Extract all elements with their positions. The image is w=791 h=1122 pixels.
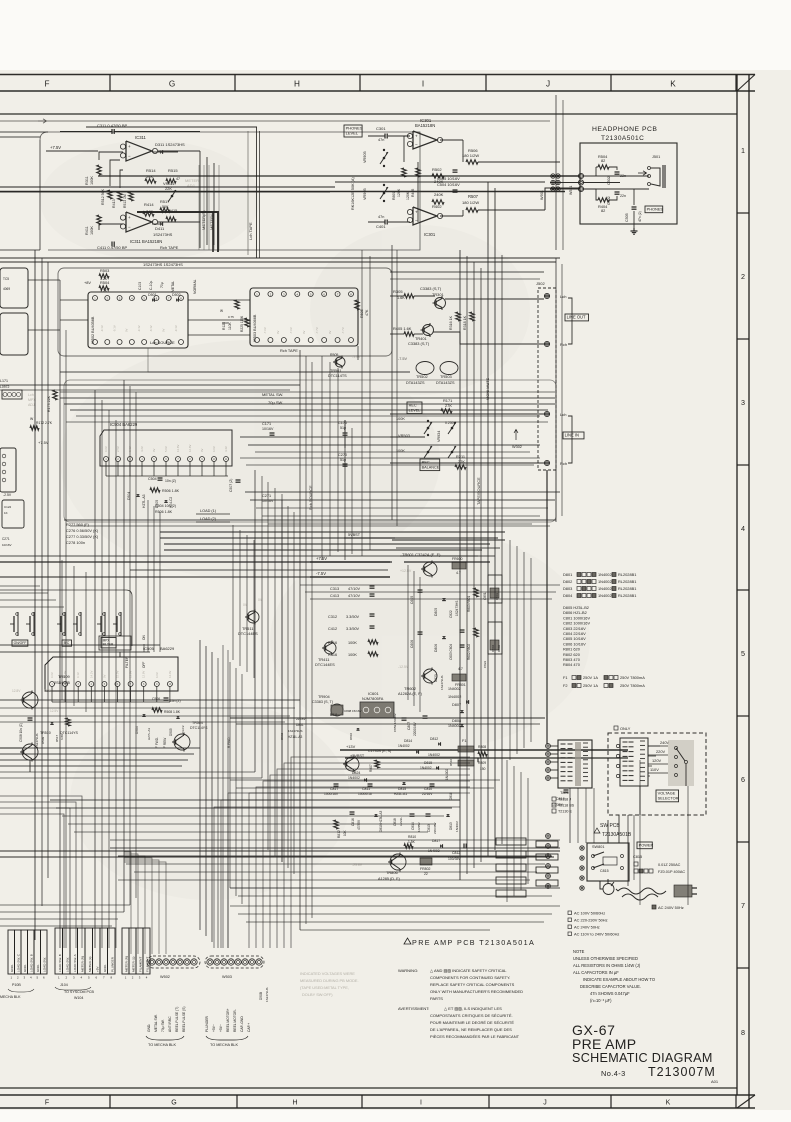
svg-text:47n: 47n: [378, 215, 384, 219]
svg-text:1.5K: 1.5K: [408, 840, 416, 844]
pot lower pair: [427, 451, 429, 453]
box meter-amp section outline: [40, 132, 420, 250]
svg-text:5: 5: [741, 649, 745, 658]
svg-text:METER (L): METER (L): [131, 957, 135, 972]
svg-text:R801: R801: [392, 191, 396, 200]
wire corner elbows bottom-left: [0, 796, 82, 948]
wires line in: [390, 413, 544, 415]
svg-text:22n: 22n: [620, 194, 626, 198]
wire top bus with arrow: [0, 120, 550, 122]
svg-text:DE L'APPAREIL, NE REMPLACER QU: DE L'APPAREIL, NE REMPLACER QUE DES: [430, 1027, 512, 1032]
svg-text:PIÈCES RECOMMANDÉES PAR LE FAB: PIÈCES RECOMMANDÉES PAR LE FABRICANT: [430, 1034, 520, 1039]
svg-text:GND.: GND.: [23, 964, 27, 972]
svg-text:C818: C818: [393, 818, 397, 826]
svg-text:R502: R502: [432, 167, 442, 172]
wire meter loop thick: [137, 212, 218, 252]
svg-text:R503: R503: [100, 268, 109, 273]
svg-text:J: J: [546, 80, 550, 89]
svg-text:220/35V: 220/35V: [433, 822, 437, 834]
svg-text:1N4002: 1N4002: [348, 776, 360, 780]
transistor TR806: [390, 854, 406, 870]
svg-text:+5V~: +5V~: [219, 1024, 223, 1032]
svg-text:LOAD SW.: LOAD SW.: [65, 957, 69, 972]
svg-text:R809: R809: [478, 761, 486, 765]
wire stub rows left mid: [0, 585, 40, 587]
transistor TR401: [423, 325, 434, 336]
connector extra header: [122, 928, 129, 974]
svg-text:220V: 220V: [656, 749, 665, 754]
transistor TR503: [440, 362, 458, 375]
svg-text:ANTI RRC: ANTI RRC: [168, 1016, 172, 1032]
connector W503: [207, 959, 213, 965]
shaded connector C851: [488, 575, 502, 603]
svg-text:1N4002: 1N4002: [428, 753, 440, 757]
connector circles mid column: [546, 834, 551, 839]
svg-text:P10B: P10B: [12, 983, 21, 987]
wire +7.5V: [46, 150, 98, 152]
svg-text:RL2028B1: RL2028B1: [618, 593, 636, 598]
svg-text:C814: C814: [411, 822, 415, 830]
svg-text:1N4002: 1N4002: [445, 769, 449, 780]
svg-text:−: −: [415, 142, 418, 147]
svg-text:DOLBY SW:OFF): DOLBY SW:OFF): [302, 992, 333, 997]
svg-text:OFF: OFF: [142, 662, 146, 668]
wire heavy bus y191: [0, 191, 565, 193]
svg-text:METER (R): METER (R): [124, 956, 128, 972]
left small box 2: [0, 313, 28, 355]
svg-text:C122: C122: [4, 505, 12, 509]
connector column T801: [546, 744, 551, 749]
fet switch q1: [17, 612, 19, 636]
svg-text:(TAPE USED:METAL TYPE,: (TAPE USED:METAL TYPE,: [300, 985, 349, 990]
box around fet section: [0, 590, 132, 646]
transistor TR502: [416, 362, 434, 375]
svg-text:Rch: Rch: [560, 461, 567, 466]
svg-text:H: H: [292, 1100, 297, 1107]
svg-text:POWER: POWER: [639, 842, 654, 847]
svg-text:10/35V: 10/35V: [417, 821, 421, 832]
svg-text:1: 1: [741, 146, 745, 155]
svg-text:DESCRIBE CAPACITOR VALUE.: DESCRIBE CAPACITOR VALUE.: [580, 984, 641, 989]
svg-text:C278 100n: C278 100n: [66, 540, 85, 545]
svg-text:C502: C502: [607, 176, 611, 185]
svg-text:METAL: METAL: [171, 281, 175, 292]
resistor R404 82: [598, 198, 609, 202]
svg-text:Rch: Rch: [560, 342, 567, 347]
svg-text:VR905: VR905: [363, 151, 367, 163]
wire w502 feeds: [124, 852, 131, 954]
svg-text:R225 110K: R225 110K: [240, 315, 244, 332]
svg-text:PLUNGER: PLUNGER: [110, 956, 114, 972]
wire selector down: [639, 786, 641, 815]
drawing top border: [0, 113, 737, 115]
bottom grid band: [0, 1094, 755, 1096]
svg-text:W503: W503: [222, 975, 232, 979]
svg-text:250V T800mA: 250V T800mA: [620, 683, 645, 688]
connector Rch line in: [544, 460, 549, 465]
svg-text:Lch: Lch: [28, 393, 34, 397]
svg-text:TO MECHA BLK: TO MECHA BLK: [148, 1043, 176, 1047]
wire mid trunk verticals 2: [232, 525, 234, 660]
wire lch tape vertical: [247, 131, 249, 255]
svg-text:SELECTOR: SELECTOR: [658, 795, 679, 800]
svg-text:RL2028B1: RL2028B1: [618, 586, 636, 591]
svg-text:LOAD SW.: LOAD SW.: [43, 957, 47, 972]
connector J104: [55, 928, 63, 974]
brace to mecha blk right: [206, 1036, 248, 1040]
svg-text:A1285 (D, E): A1285 (D, E): [378, 877, 401, 881]
svg-text:13.8V: 13.8V: [129, 671, 133, 678]
wire 13V bus: [340, 749, 628, 751]
svg-text:METER (L): METER (L): [88, 957, 92, 972]
fusible FR802: [420, 858, 432, 865]
svg-text:1N4002: 1N4002: [598, 579, 612, 584]
svg-text:C-10µ: C-10µ: [149, 281, 153, 290]
svg-text:△ ET ▨▨, ILS INDIQUENT LES: △ ET ▨▨, ILS INDIQUENT LES: [444, 1006, 502, 1011]
sw pcb connect circles: [580, 846, 584, 850]
svg-text:-7.6V: -7.6V: [289, 327, 293, 334]
svg-text:J104: J104: [60, 983, 68, 987]
svg-text:TAPE/SOURCE: TAPE/SOURCE: [476, 477, 481, 505]
svg-text:+13V: +13V: [346, 744, 356, 749]
fusible resistor FR600: [452, 562, 466, 569]
svg-text:C277 0.33/50V (K): C277 0.33/50V (K): [66, 534, 99, 539]
svg-text:ON/OFF: ON/OFF: [14, 641, 27, 645]
svg-text:C812: C812: [452, 851, 460, 855]
connector W501: [578, 173, 583, 178]
svg-text:14.2V: 14.2V: [89, 671, 93, 678]
svg-text:+: +: [415, 133, 418, 138]
svg-text:C505 10/16V: C505 10/16V: [437, 176, 460, 181]
svg-text:FILAMENT: FILAMENT: [138, 957, 142, 972]
box PHONES label: [645, 206, 663, 213]
svg-text:4: 4: [741, 524, 745, 533]
svg-text:RL2028B1: RL2028B1: [618, 572, 636, 577]
wire lch tape pair: [256, 127, 258, 258]
svg-text:Lch SOURCE: Lch SOURCE: [150, 340, 175, 345]
left ic box 3: [0, 448, 16, 492]
svg-text:47n (2): 47n (2): [638, 211, 642, 222]
top grid band: [0, 74, 755, 76]
svg-text:AC 220-230V 50Hz: AC 220-230V 50Hz: [574, 918, 608, 923]
svg-text:D819 HZ5L-A3: D819 HZ5L-A3: [379, 811, 383, 832]
svg-text:1S2473HS 1S2473HS: 1S2473HS 1S2473HS: [143, 262, 183, 267]
wire long verticals: [34, 250, 36, 940]
transistor TR602: [423, 669, 437, 683]
wire transformer secondary: [550, 745, 558, 747]
transformer T851 selector: [620, 738, 648, 786]
svg-text:MEASURED DURING PB MODE.: MEASURED DURING PB MODE.: [300, 978, 359, 983]
svg-text:ALL CAPACITORS IN µF: ALL CAPACITORS IN µF: [573, 970, 619, 975]
svg-text:1N4002: 1N4002: [598, 593, 612, 598]
box POWER: [637, 842, 652, 849]
box headphone pcb: [580, 143, 677, 224]
svg-text:VR934: VR934: [437, 431, 441, 442]
svg-text:47/35V: 47/35V: [357, 819, 361, 830]
svg-text:C103: C103: [138, 282, 142, 290]
box PHONES LEVEL: [344, 125, 362, 137]
svg-text:LOAD SW. B: LOAD SW. B: [58, 954, 62, 972]
transistor TR509 circle: [22, 692, 38, 708]
svg-text:D817: D817: [432, 839, 440, 843]
connector comb right: [536, 841, 558, 847]
svg-text:J501: J501: [652, 155, 660, 159]
svg-text:70µ: 70µ: [160, 282, 164, 288]
svg-text:10/16V: 10/16V: [2, 543, 12, 547]
wire elbows fan B: [228, 793, 460, 948]
svg-text:C504 10/16V: C504 10/16V: [437, 182, 460, 187]
svg-text:-7.6V: -7.6V: [263, 327, 267, 334]
box B/C: [62, 640, 72, 646]
svg-text:C810: C810: [424, 787, 432, 791]
svg-text:C271: C271: [2, 537, 10, 541]
svg-text:−: −: [415, 218, 418, 223]
svg-text:VR905: VR905: [363, 188, 367, 200]
pot VR503: [427, 427, 429, 429]
svg-text:0.250K: 0.250K: [445, 421, 457, 425]
IC502 BU4058B: [88, 292, 188, 348]
diode D311: [160, 150, 163, 154]
svg-text:-9.1V: -9.1V: [137, 325, 141, 332]
svg-text:D824: D824: [352, 771, 360, 775]
svg-text:0.75: 0.75: [228, 315, 234, 319]
wire extra mesh verticals: [61, 560, 63, 700]
wires selector: [648, 745, 660, 747]
svg-text:B/C: B/C: [64, 641, 70, 645]
svg-text:R504: R504: [100, 280, 110, 285]
IC503 BU4066B: [250, 288, 358, 346]
connector Lch line out: [544, 293, 549, 298]
wires under ic504: [105, 461, 107, 476]
svg-text:REEL MOTOR-: REEL MOTOR-: [233, 1009, 237, 1032]
transistor TR411: [324, 642, 336, 654]
wire vertical meter bundle: [198, 165, 200, 250]
op-amp IC311b: [126, 212, 152, 232]
box ON/OFF: [12, 640, 28, 646]
svg-text:IC311: IC311: [135, 135, 147, 140]
svg-text:FR802: FR802: [420, 867, 431, 871]
svg-text:W: W: [220, 309, 223, 313]
svg-text:TC5: TC5: [3, 277, 9, 281]
svg-text:12.5V: 12.5V: [50, 709, 59, 713]
svg-text:GND.: GND.: [10, 964, 14, 972]
op-amp IC301b: [413, 207, 437, 225]
svg-text:R402: R402: [432, 204, 442, 209]
svg-text:D815: D815: [398, 787, 406, 791]
svg-text:0V: 0V: [302, 330, 306, 334]
svg-text:LOAD SW. A: LOAD SW. A: [73, 953, 77, 972]
svg-text:PRE AMP: PRE AMP: [572, 1036, 636, 1052]
svg-text:D501: D501: [148, 293, 157, 297]
svg-text:GND.: GND.: [103, 964, 107, 972]
right border column: [736, 75, 738, 1096]
box REC BALANCE: [420, 459, 440, 471]
svg-text:W501: W501: [569, 186, 573, 195]
svg-text:1N4002: 1N4002: [455, 821, 459, 832]
svg-text:ONLY WITH MANUFACTURER'S RECOM: ONLY WITH MANUFACTURER'S RECOMMENDED: [430, 989, 523, 994]
wire elbows w503 fan: [291, 757, 470, 948]
svg-text:FILTER: FILTER: [125, 656, 129, 668]
svg-text:H: H: [294, 80, 300, 89]
diode D411: [160, 222, 163, 226]
svg-text:△ AND ▨▨ INDICATE SAFETY CRITI: △ AND ▨▨ INDICATE SAFETY CRITICAL: [430, 968, 507, 973]
svg-text:LINE OUT: LINE OUT: [567, 315, 586, 320]
svg-text:I: I: [420, 1100, 422, 1107]
wires headphone pcb internal: [583, 175, 649, 177]
label ONLY: [614, 726, 618, 730]
box MPX FILTER: [99, 636, 131, 650]
svg-text:NORMAL: NORMAL: [193, 279, 197, 294]
svg-text:R172 2.7K: R172 2.7K: [36, 421, 53, 425]
svg-text:F: F: [45, 1100, 49, 1107]
svg-text:0.01Z 250AC: 0.01Z 250AC: [658, 863, 681, 867]
svg-text:120K: 120K: [406, 191, 410, 200]
svg-text:D813: D813: [449, 822, 453, 830]
svg-text:CAP.+: CAP.+: [247, 1023, 251, 1032]
svg-text:ON: ON: [142, 635, 146, 640]
svg-text:R807: R807: [369, 764, 373, 772]
voltage selector dashed box: [608, 733, 706, 815]
wire extra mesh horizontals: [60, 391, 555, 393]
wire dark pair y851: [0, 850, 560, 852]
power plug cable: [603, 884, 614, 895]
svg-text:C402: C402: [607, 196, 611, 205]
svg-text:3: 3: [741, 398, 745, 407]
fuse F2 shaded: [458, 760, 474, 766]
svg-text:HZ5L-A1: HZ5L-A1: [394, 792, 407, 796]
svg-text:R808: R808: [478, 745, 486, 749]
svg-text:NOTE: NOTE: [573, 949, 585, 954]
svg-text:INDICATED VOLTAGES WERE: INDICATED VOLTAGES WERE: [300, 971, 355, 976]
svg-text:G: G: [169, 80, 175, 89]
left small box 1: [0, 268, 28, 308]
svg-text:0V: 0V: [162, 328, 166, 332]
wire rounded box record section: [58, 268, 392, 356]
svg-text:IC503 BU4066B: IC503 BU4066B: [253, 314, 257, 342]
svg-text:Lch: Lch: [560, 412, 566, 417]
svg-text:BA15218N: BA15218N: [415, 123, 435, 128]
plug icon: [674, 885, 692, 897]
svg-text:GND.: GND.: [147, 1024, 151, 1032]
svg-text:100/35V: 100/35V: [448, 857, 461, 861]
svg-text:1S2473HS: 1S2473HS: [265, 987, 269, 1002]
diode D50x: [50, 722, 53, 724]
svg-text:I: I: [422, 80, 424, 89]
svg-text:FZ0.01P 400AC: FZ0.01P 400AC: [658, 870, 685, 874]
wire trunk verticals extra: [222, 645, 224, 948]
svg-text:C505: C505: [625, 213, 629, 222]
svg-text:L0972: L0972: [0, 385, 10, 389]
svg-text:TO SYSCOM PCB: TO SYSCOM PCB: [64, 990, 94, 994]
svg-text:0V: 0V: [276, 330, 280, 334]
ac variant list: [568, 911, 572, 915]
svg-text:14.4V: 14.4V: [168, 671, 172, 678]
svg-text:TO MECHA BLK: TO MECHA BLK: [210, 1043, 238, 1047]
label T2130A501B: [594, 828, 600, 833]
box REC LEVEL: [407, 402, 422, 414]
svg-text:K: K: [670, 80, 676, 89]
connector Lch line in: [544, 411, 549, 416]
svg-text:C301: C301: [376, 126, 386, 131]
wire headphone pcb connect: [550, 175, 580, 177]
svg-text:+: +: [415, 209, 418, 214]
svg-text:-23.6V: -23.6V: [352, 863, 363, 867]
svg-text:ALL RESISTORS IN OHMS 1/4W (J): ALL RESISTORS IN OHMS 1/4W (J): [573, 963, 641, 968]
svg-text:1N4002: 1N4002: [598, 586, 612, 591]
svg-text:AC 100V 50/60Hz: AC 100V 50/60Hz: [574, 911, 605, 916]
svg-text:ONLY: ONLY: [620, 726, 631, 731]
wires tr510: [0, 747, 22, 749]
svg-text:Lch: Lch: [560, 294, 566, 299]
wires line out: [390, 295, 404, 297]
svg-text:7: 7: [741, 901, 745, 910]
resistor R508 mid: [152, 708, 162, 712]
svg-text:IC502 BU4058B: IC502 BU4058B: [91, 316, 95, 344]
svg-text:1N4002: 1N4002: [420, 766, 432, 770]
svg-text:T2130A501C: T2130A501C: [601, 135, 644, 142]
op-amp IC301a: [413, 131, 437, 149]
svg-text:R405: R405: [411, 189, 415, 197]
svg-text:LINE IN: LINE IN: [565, 433, 579, 438]
svg-text:W502: W502: [160, 975, 170, 979]
svg-text:C276 0.56/50V (K): C276 0.56/50V (K): [66, 528, 99, 533]
wire sw801 to plug: [600, 881, 603, 889]
svg-text:LEVEL: LEVEL: [346, 131, 359, 136]
svg-text:J: J: [543, 1100, 547, 1107]
svg-text:22/16V: 22/16V: [422, 792, 433, 796]
svg-text:METER (R): METER (R): [80, 956, 84, 972]
svg-text:T2130A501B: T2130A501B: [602, 832, 632, 838]
svg-text:COMPOSTANTS CRITIQUES DE SÉCUR: COMPOSTANTS CRITIQUES DE SÉCURITÉ.: [430, 1013, 513, 1018]
svg-text:250V 1A: 250V 1A: [583, 675, 598, 680]
svg-text:R507: R507: [468, 194, 479, 199]
svg-text:REEL PULSE (T): REEL PULSE (T): [175, 1007, 179, 1032]
svg-text:240K: 240K: [434, 192, 444, 197]
svg-text:1K: 1K: [4, 511, 8, 515]
svg-text:70µ SW.: 70µ SW.: [161, 1019, 165, 1032]
wire trunk to headphone bus: [487, 182, 489, 245]
svg-text:K: K: [666, 1100, 671, 1107]
svg-text:-9.1V: -9.1V: [100, 325, 104, 332]
svg-text:HZ22L: HZ22L: [399, 817, 403, 826]
svg-text:G: G: [171, 1100, 176, 1107]
svg-text:1N4002: 1N4002: [598, 572, 612, 577]
svg-text:120K: 120K: [397, 188, 401, 197]
wire main bus to headphone: [98, 175, 580, 177]
svg-text:PHONES: PHONES: [647, 206, 664, 211]
svg-text:C508 10n (Z): C508 10n (Z): [19, 723, 23, 742]
svg-text:110V: 110V: [650, 767, 659, 772]
svg-text:-2.5V: -2.5V: [3, 493, 12, 497]
svg-text:REEL PULSE (S): REEL PULSE (S): [182, 1006, 186, 1032]
svg-text:R517: R517: [55, 734, 59, 742]
svg-text:DTC114YS: DTC114YS: [60, 731, 79, 735]
svg-text:REPLACE SAFETY CRITICAL COMPON: REPLACE SAFETY CRITICAL COMPONENTS: [430, 982, 515, 987]
left small parts: [2, 500, 24, 528]
svg-text:AVERTISSMENT:: AVERTISSMENT:: [398, 1006, 429, 1011]
svg-text:T2118 BS: T2118 BS: [558, 804, 575, 808]
wire horizontals to transformer: [230, 717, 545, 719]
svg-text:D801: D801: [563, 572, 572, 577]
svg-text:6: 6: [741, 775, 745, 784]
svg-text:T213007M: T213007M: [648, 1065, 716, 1079]
svg-text:0V: 0V: [102, 674, 106, 678]
selector switch contacts: [668, 740, 694, 786]
svg-text:D50B: D50B: [259, 992, 263, 1000]
dashed connector internal wires: [544, 295, 550, 297]
svg-text:12.8V: 12.8V: [142, 671, 146, 678]
svg-text:+8V: +8V: [84, 280, 91, 285]
